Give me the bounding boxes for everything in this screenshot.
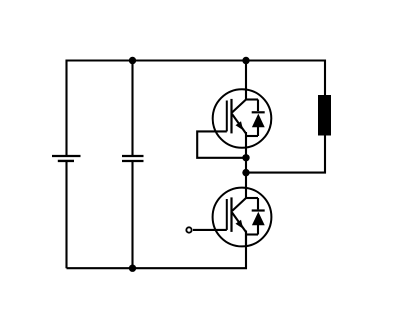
node [129,265,136,272]
node [242,57,249,64]
transistor Q1 [210,89,271,158]
wire [67,61,326,96]
resistor [318,95,331,136]
node [242,154,249,161]
wire [246,135,325,173]
battery [52,156,81,161]
wire [245,173,247,198]
transistor Q2 [193,188,271,247]
node [242,169,249,176]
wire [245,61,247,100]
terminal [186,227,191,232]
wire [131,61,133,157]
node [129,57,136,64]
wire [67,232,247,268]
wire [245,158,247,173]
capacitor [122,156,144,161]
wire [65,60,67,157]
wire [65,161,67,268]
wire [197,131,246,157]
wire [131,161,133,268]
